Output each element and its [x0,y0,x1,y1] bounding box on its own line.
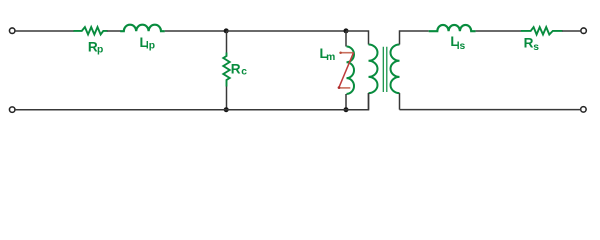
wire Llp to node A [165,30,227,32]
wire Rs to terminal top-right [562,30,581,32]
svg-text:lp: lp [146,41,155,52]
transformer primary winding [369,45,378,94]
svg-text:ls: ls [457,41,466,52]
terminal top-left [9,28,15,34]
svg-text:R: R [524,36,534,51]
inductor Lls [429,25,476,31]
saturation arrow bottom bar on Lm [339,87,350,89]
wire transformer primary bottom [368,93,370,110]
inductor Llp [120,25,165,32]
svg-text:R: R [231,61,241,76]
resistor Rc [223,53,229,87]
wire bottom primary [15,93,369,110]
svg-text:s: s [533,42,539,53]
wire top-left from terminal to Rp [15,30,74,32]
wire Rp to Llp [107,30,121,32]
saturation arrow diagonal on Lm [339,53,354,88]
node B junction dot top of Lm [344,28,349,33]
inductor Lm [347,47,355,94]
terminal bottom-right [581,107,587,113]
junction dot bottom of Lm [344,107,349,112]
wire node A to node B [227,30,347,32]
terminal top-right [581,28,587,34]
saturation arrow top bar on Lm [340,52,353,54]
wire Rc branch upper [226,31,228,53]
saturation arrowhead bottom [338,86,341,89]
wire bottom secondary [400,109,581,111]
wire Rc branch lower [226,87,228,110]
svg-text:p: p [97,45,103,56]
wire transformer secondary bottom [399,93,401,110]
junction dot bottom of Rc [224,107,229,112]
wire transformer secondary top [400,31,429,45]
wire Lm branch lower [345,94,347,110]
wire node B to transformer primary top [346,31,369,45]
svg-text:m: m [326,52,335,63]
transformer secondary winding [391,45,400,94]
svg-text:c: c [241,67,247,78]
terminal bottom-left [9,107,15,113]
wire Lm branch upper [345,31,347,47]
resistor Rs [521,27,563,34]
node A junction dot top of Rc [224,28,229,33]
wire Lls to Rs [476,30,521,32]
transformer core [383,47,387,92]
resistor Rp [74,27,108,34]
